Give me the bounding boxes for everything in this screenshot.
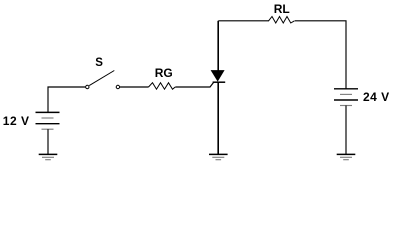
- top wire left segment: [218, 20, 269, 22]
- wire switch to RG: [120, 86, 149, 88]
- top wire right segment and down to battery: [295, 21, 346, 89]
- svg-text:RG: RG: [155, 66, 173, 80]
- svg-text:24 V: 24 V: [363, 90, 390, 104]
- ground (right): [337, 154, 356, 159]
- wire battery bottom to ground: [47, 129, 49, 154]
- battery V2 24 V: [334, 89, 358, 106]
- svg-text:RL: RL: [274, 2, 290, 16]
- wire battery top to switch: [48, 87, 85, 112]
- svg-text:S: S: [95, 57, 103, 69]
- ground (SCR cathode): [209, 154, 228, 159]
- SCR D1: [211, 21, 226, 155]
- svg-text:12 V: 12 V: [3, 114, 30, 128]
- switch S: [86, 71, 120, 89]
- ground (left): [39, 154, 58, 159]
- resistor RL: [269, 17, 295, 24]
- wire RG to SCR gate: [175, 82, 213, 87]
- resistor RG: [149, 83, 176, 90]
- wire battery V2 bottom to ground: [345, 106, 347, 155]
- battery V1 12 V: [36, 112, 60, 129]
